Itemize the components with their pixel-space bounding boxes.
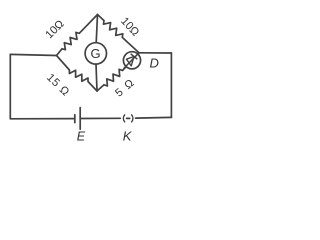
galvanometer G: [85, 43, 106, 64]
resistor 10ohm top-left arm: [57, 15, 98, 56]
battery E plate short: [74, 115, 76, 123]
diode D triangle: [127, 57, 135, 66]
wire bottom left: [10, 118, 74, 120]
wire right horizontal: [139, 52, 171, 54]
wire galvanometer bottom: [96, 64, 97, 91]
wire left horizontal: [10, 54, 56, 55]
key K left bracket: [123, 115, 124, 122]
wire galvanometer top: [96, 15, 97, 43]
key K right bracket: [132, 115, 133, 122]
key K dash: [127, 117, 130, 119]
diode D axis wire: [124, 53, 139, 69]
svg-text:15 Ω: 15 Ω: [44, 72, 72, 99]
svg-text:10Ω: 10Ω: [118, 15, 141, 38]
resistor 15ohm bottom-left arm: [57, 56, 98, 92]
wire left vertical: [9, 54, 11, 118]
svg-text:G: G: [91, 46, 101, 61]
diode D: [123, 52, 140, 69]
wire right vertical: [170, 53, 172, 117]
svg-text:E: E: [77, 130, 86, 144]
svg-text:K: K: [123, 129, 133, 144]
svg-text:D: D: [150, 56, 159, 71]
svg-text:5 Ω: 5 Ω: [113, 77, 137, 100]
svg-text:10Ω: 10Ω: [43, 18, 66, 41]
wire key to right corner: [136, 116, 172, 119]
battery E plate long: [79, 108, 81, 130]
resistor 5ohm bottom-right arm: [97, 53, 139, 91]
resistor 10ohm top-right arm: [98, 15, 140, 53]
wire battery to key: [80, 117, 120, 119]
diode D cathode bar: [131, 54, 137, 59]
